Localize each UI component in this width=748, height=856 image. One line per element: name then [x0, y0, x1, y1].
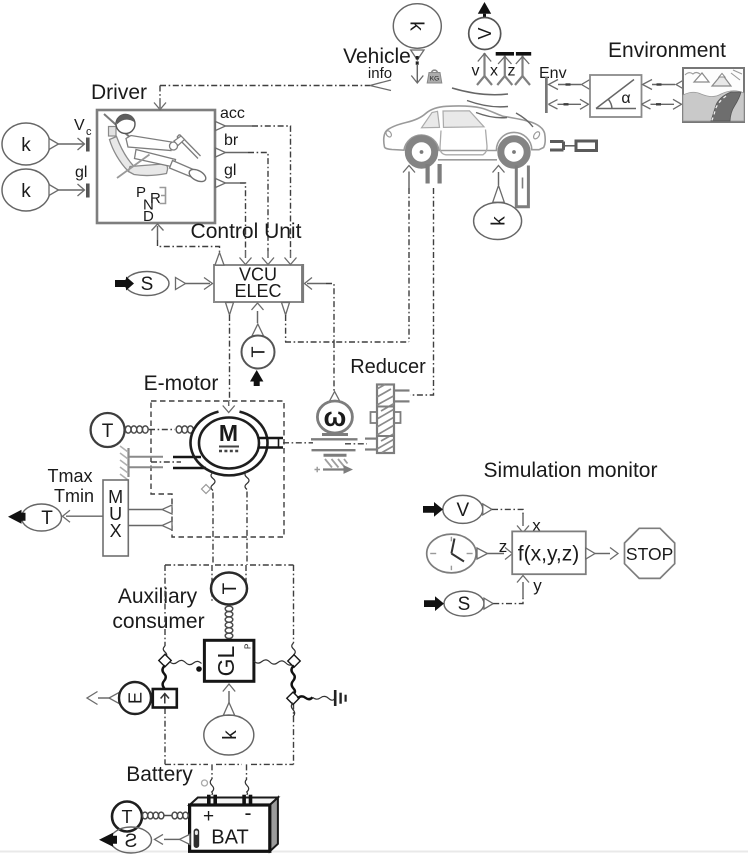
label Vc — [74, 117, 92, 138]
wire out of E arrow — [87, 692, 110, 705]
svg-text:KG: KG — [430, 76, 439, 83]
svg-text:Tmin: Tmin — [54, 486, 94, 506]
aux enclosure bottom edge — [165, 763, 294, 765]
svg-text:STOP: STOP — [626, 544, 673, 564]
coil link T to motor — [125, 426, 148, 433]
svg-text:M: M — [219, 420, 238, 446]
ground symbol — [335, 690, 345, 706]
stator leads — [173, 457, 206, 468]
wire k2 to gl port — [59, 184, 85, 196]
motor M label — [219, 420, 239, 451]
wire aux to battery plus — [210, 764, 213, 795]
funnel k balloon — [411, 50, 424, 60]
svg-text:T: T — [220, 582, 241, 594]
motor inner circle — [199, 418, 259, 469]
svg-text:GL: GL — [213, 645, 239, 676]
wire front wheel signal up arrow — [403, 166, 415, 189]
driver figure shoe — [187, 167, 208, 184]
air flow lines — [452, 88, 533, 127]
VCU ELEC block — [214, 264, 303, 303]
svg-text:D: D — [143, 208, 154, 225]
svg-text:P: P — [244, 644, 253, 649]
squiggle diamond to arrowbox — [162, 666, 165, 689]
black arrow out of T oval — [8, 510, 26, 524]
arrows into VCU top — [240, 251, 297, 265]
junction dot GL left — [196, 666, 202, 672]
S state oval battery — [111, 827, 152, 853]
diamond junction left — [159, 654, 171, 666]
svg-text:k: k — [489, 216, 510, 226]
svg-text:gl: gl — [224, 162, 236, 179]
black arrow below T sensor — [250, 370, 263, 386]
svg-text:z: z — [508, 63, 516, 80]
arrow command into motor — [223, 401, 235, 413]
wire acc to VCU — [226, 126, 291, 251]
wire reducer to wheel port — [410, 188, 434, 395]
svg-text:V: V — [74, 117, 85, 134]
funnel k1 — [49, 139, 59, 150]
wire VCU right branch to bus — [285, 315, 287, 342]
hitch bracket connector — [550, 141, 597, 151]
port acc — [216, 105, 245, 131]
fork vehicle info receiver — [370, 80, 391, 91]
GL converter block — [204, 640, 254, 681]
wire k to GL arrow — [223, 684, 235, 708]
black arrow out of S battery — [99, 833, 117, 847]
aux enclosure left edge lower — [164, 708, 166, 764]
funnel clock out — [477, 548, 488, 559]
svg-text:V: V — [475, 27, 495, 39]
black arrow into V — [423, 502, 443, 517]
clock source — [427, 534, 476, 573]
svg-text:c: c — [86, 126, 92, 138]
svg-text:ω: ω — [323, 402, 346, 432]
U bracket port — [516, 166, 528, 207]
wire k1 to Vc port — [59, 138, 85, 150]
shaft mount under omega — [311, 435, 358, 468]
driver figure seat belt — [104, 114, 133, 140]
wire alpha to Env (top) — [549, 80, 591, 90]
front wheel — [408, 139, 434, 165]
svg-text:ELEC: ELEC — [234, 281, 281, 301]
driver figure headrest — [109, 127, 117, 137]
dash-dot bus horizontal — [285, 341, 409, 343]
Env port bar — [545, 77, 548, 113]
black arrow above V gauge — [478, 2, 491, 18]
svg-text:br: br — [224, 132, 239, 149]
k source rear axle — [474, 203, 522, 240]
squiggle GL right to edge — [254, 660, 294, 665]
funnel k aux — [223, 703, 234, 716]
gear output pins — [394, 391, 410, 402]
svg-text:α: α — [621, 90, 630, 107]
svg-text:Driver: Driver — [91, 81, 147, 104]
driver figure hair — [117, 114, 135, 124]
T sensor circle motor — [91, 413, 125, 447]
wire VCU to driver bottom — [152, 224, 220, 252]
left edge squiggle above diamond — [163, 646, 167, 658]
driver figure thigh — [135, 150, 176, 168]
battery terminals — [207, 795, 252, 805]
wire Env to alpha (bottom) — [548, 99, 588, 109]
svg-text:z: z — [499, 537, 508, 556]
black arrow into S monitor — [424, 596, 444, 611]
svg-text:info: info — [368, 65, 392, 82]
battery level gauge — [194, 829, 200, 849]
e-motor dashed enclosure — [151, 401, 284, 537]
svg-text:T: T — [122, 807, 133, 827]
bold squiggle down — [291, 666, 294, 696]
black arrow into S — [115, 277, 134, 291]
svg-text:X: X — [110, 521, 122, 541]
reducer gear block — [371, 385, 401, 454]
V probe oval — [443, 495, 483, 523]
driver figure calf — [170, 161, 195, 178]
small diamond marker — [201, 484, 210, 493]
svg-text:acc: acc — [220, 105, 245, 122]
wire VCU to e-motor — [229, 315, 231, 401]
wire speed feedback into VCU right — [305, 278, 335, 343]
motor phase wire A — [211, 473, 215, 566]
wire f to STOP — [595, 548, 618, 560]
wire bus down to omega — [333, 342, 335, 394]
V gauge circle — [469, 18, 501, 50]
svg-text:k: k — [21, 135, 31, 156]
battery 3D side — [270, 798, 278, 852]
alpha slope block — [590, 75, 642, 117]
label Auxiliary consumer — [112, 585, 204, 633]
funnel omega — [329, 392, 340, 402]
aux enclosure right edge lower — [293, 704, 295, 765]
wire br to VCU — [226, 153, 269, 252]
battery 3D top — [190, 798, 278, 806]
coil T to GL — [225, 606, 233, 638]
T sensor circle aux — [211, 573, 247, 605]
driver figure seat frame — [117, 155, 150, 179]
T sensor circle VCU — [242, 336, 275, 369]
driver block box — [97, 110, 215, 223]
T output oval — [22, 504, 62, 531]
funnel T sensor up — [252, 324, 264, 336]
sensor x with bar — [496, 52, 514, 85]
svg-text:Tmax: Tmax — [48, 466, 93, 486]
car underbody — [438, 159, 497, 161]
funnel E left — [109, 693, 119, 704]
svg-text:k: k — [405, 21, 426, 31]
funnel f out — [586, 548, 595, 559]
wire aux to battery minus — [245, 764, 248, 795]
dash-dot link — [149, 429, 175, 431]
port bars under car — [426, 164, 442, 184]
phase wire A inside — [211, 565, 213, 603]
car headlight — [385, 130, 393, 138]
omega sensor circle — [317, 401, 352, 433]
svg-text:Environment: Environment — [608, 39, 726, 62]
svg-text:Auxiliary: Auxiliary — [118, 585, 198, 608]
coil T to battery — [142, 812, 188, 819]
svg-text:Battery: Battery — [126, 763, 193, 786]
S probe oval — [444, 591, 484, 616]
diamond junction right upper — [288, 655, 300, 667]
wire S to VCU — [186, 278, 213, 290]
wire alpha to environment (bottom) — [642, 99, 682, 109]
svg-text:S: S — [125, 831, 138, 852]
k balloon vehicle mass — [393, 4, 441, 49]
squiggle below right diamond — [291, 703, 295, 717]
E source circle — [119, 682, 151, 714]
svg-text:E: E — [126, 692, 146, 704]
wire T sensor to VCU bottom — [252, 303, 264, 323]
sensor v — [477, 53, 492, 85]
funnel k2 — [49, 185, 59, 196]
driver figure torso arm — [126, 136, 172, 151]
k constant source 1 — [2, 123, 50, 165]
T sensor circle battery — [112, 802, 142, 832]
svg-text:Reducer: Reducer — [350, 356, 426, 378]
svg-text:Control Unit: Control Unit — [191, 220, 302, 243]
link shaft to gear — [345, 443, 367, 445]
wire rear axle arrow — [493, 166, 505, 186]
bold squiggle to ground — [298, 696, 313, 699]
funnel S out — [176, 278, 186, 290]
svg-text:E-motor: E-motor — [144, 372, 219, 395]
phase wire B inside — [245, 565, 247, 589]
svg-text:BAT: BAT — [211, 827, 248, 849]
car door — [440, 130, 487, 155]
port bar gl — [86, 184, 90, 198]
fixed wall mount — [120, 446, 163, 480]
svg-text:f(x,y,z): f(x,y,z) — [518, 543, 579, 566]
aux enclosure left edge — [164, 565, 166, 646]
dash-dot inside motor box — [151, 461, 181, 463]
port VCU bottom left triangle — [226, 303, 234, 316]
wire S to y input — [493, 576, 529, 604]
motor shaft right — [258, 438, 283, 448]
port gl — [216, 162, 237, 188]
squiggle diamond to GL — [170, 660, 202, 664]
small circle marker — [202, 780, 208, 786]
port br — [216, 132, 239, 157]
aux enclosure right edge upper — [293, 565, 295, 643]
svg-text:S: S — [458, 594, 471, 615]
port VCU bottom right triangle — [282, 303, 290, 316]
svg-text:T: T — [249, 347, 269, 358]
aux enclosure top edge — [165, 564, 294, 566]
svg-text:V: V — [456, 500, 469, 521]
MUX block — [103, 480, 128, 556]
driver figure head — [116, 115, 135, 134]
labels Tmax Tmin — [48, 466, 95, 506]
gear letters PRND — [136, 184, 161, 225]
wire battery to S oval — [155, 834, 180, 844]
svg-text:Env: Env — [539, 65, 567, 82]
S source VCU — [125, 272, 169, 296]
dash-dot motor shaft link — [283, 442, 313, 444]
rear wheel — [501, 139, 527, 165]
squiggle to ground thin — [313, 696, 335, 700]
velocity arrow marker — [315, 465, 354, 474]
driver figure seat back — [110, 137, 135, 172]
svg-text:-: - — [245, 802, 252, 825]
page edge strip — [0, 851, 748, 853]
svg-text:v: v — [472, 63, 480, 80]
car windows — [422, 111, 485, 128]
wire V to x input — [492, 509, 529, 532]
current direction box — [153, 689, 177, 708]
k constant source 2 — [2, 169, 50, 211]
car taillight — [532, 131, 541, 140]
wire MUX input 1 — [128, 505, 172, 514]
svg-text:T: T — [41, 508, 53, 529]
right edge squiggle — [292, 643, 296, 655]
port bar Vc — [86, 138, 90, 152]
motor phase wire B — [245, 472, 249, 566]
wire environment to alpha (top) — [643, 80, 685, 90]
svg-text:S: S — [141, 274, 154, 295]
wire MUX to T oval — [63, 510, 104, 522]
wire MUX input 2 — [128, 521, 172, 530]
svg-text:T: T — [102, 421, 114, 442]
svg-text:y: y — [533, 576, 542, 595]
coil link to motor body — [176, 426, 193, 433]
svg-text:consumer: consumer — [112, 610, 204, 633]
gear selector gate — [160, 188, 166, 204]
k source aux — [204, 715, 254, 755]
driver figure control lever — [174, 135, 201, 159]
car body — [384, 106, 545, 151]
wire vehicle info to driver top — [154, 86, 370, 110]
motor outer ring — [191, 412, 268, 476]
driver figure seat cushion — [129, 164, 168, 176]
svg-text:gl: gl — [75, 164, 87, 181]
svg-text:x: x — [490, 63, 498, 80]
funnel k rear — [493, 186, 505, 203]
wire clock to z input — [488, 548, 513, 560]
funnel battery S out — [180, 834, 190, 844]
STOP octagon — [625, 528, 675, 578]
svg-text:Simulation monitor: Simulation monitor — [484, 459, 658, 482]
svg-text:k: k — [21, 181, 31, 202]
KG weight icon — [427, 70, 442, 83]
sensor z with bar — [515, 52, 531, 85]
svg-text:k: k — [220, 730, 241, 740]
wire gl to VCU — [226, 183, 246, 251]
gear input pins — [365, 439, 377, 450]
battery BAT box — [190, 802, 270, 851]
driver figure hand — [170, 142, 178, 150]
wire car speed down bus — [408, 188, 410, 342]
port VCU top out triangle — [215, 253, 224, 266]
funnel V out — [483, 504, 492, 515]
f(x,y,z) block — [512, 531, 586, 574]
wire k balloon down arrow — [411, 56, 423, 83]
funnel S out monitor — [484, 598, 493, 609]
environment scene image — [683, 68, 744, 122]
diamond junction right lower — [287, 692, 299, 704]
svg-text:+: + — [203, 806, 214, 827]
